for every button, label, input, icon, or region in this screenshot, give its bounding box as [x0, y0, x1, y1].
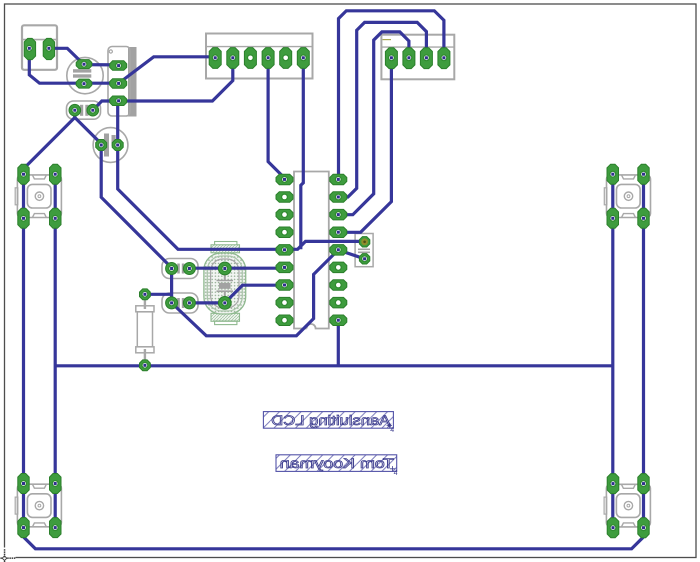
- wire D1 pad1 to Q1 pad1: [75, 110, 101, 145]
- capacitor C2 outline: [162, 293, 198, 313]
- IC1 left pin pad row8: [276, 297, 293, 308]
- capacitor C1 outline: [162, 259, 198, 279]
- switch S1 pad1: [18, 164, 29, 184]
- IC1 right pin pad row7: [330, 280, 347, 290]
- IC1 right pin pad row6: [330, 262, 347, 273]
- resistor R1 pad2: [140, 360, 151, 371]
- svg-text:Aansluiting LCD: Aansluiting LCD: [271, 413, 390, 428]
- resistor R1 pad1: [140, 289, 151, 300]
- svg-text:4: 4: [394, 470, 398, 477]
- regulator IC2 pad1: [110, 61, 127, 71]
- svg-text:4: 4: [390, 427, 394, 434]
- wire SV2 pad4 arc to IC1 pin1: [339, 11, 444, 180]
- capacitor C2 pad1: [166, 297, 178, 309]
- jumper JP1 pad1 (via): [359, 237, 369, 247]
- voltage regulator IC2 outline: [128, 47, 137, 117]
- resistor R1 outline: [144, 296, 146, 309]
- header SV2 pad1: [385, 48, 397, 69]
- capacitor C2 pad2: [183, 297, 195, 309]
- wire S1 pad2 to S3 pad2 column: [54, 174, 57, 527]
- transistor Q1 pad2: [112, 140, 123, 151]
- jumper JP1 pad2: [359, 254, 369, 264]
- switch S2 outline: [607, 175, 651, 218]
- wire mid horizontal R1 pad2 bus: [55, 364, 613, 367]
- IC1 left pin pad row6: [276, 262, 293, 273]
- switch S4 pad1: [607, 474, 619, 494]
- IC1 left pin pad row9: [276, 315, 293, 326]
- switch S3 pad4: [50, 518, 62, 538]
- wire SV2 pad1 to IC1 pin4: [338, 58, 391, 233]
- wire R1 pad1 to C1-C2 net: [145, 293, 172, 296]
- capacitor C3 minus pad: [76, 79, 92, 88]
- transistor Q1 pad1: [96, 140, 107, 151]
- wire Q2 pad2 to IC1 pin12: [225, 285, 285, 303]
- header SV1 pad3: [244, 48, 256, 69]
- text label Aansluiting LCD: [263, 412, 393, 429]
- IC IC1 outline: [294, 172, 329, 329]
- IC1 left pin pad row5: [276, 245, 293, 256]
- IC1 left pin pad row1: [276, 174, 293, 185]
- header SV2 outline: [381, 35, 454, 80]
- IC1 left pin pad row7: [276, 280, 293, 290]
- diode D1 pad1: [69, 104, 81, 116]
- wire SV2 pad2 arc to IC1 pin3: [338, 32, 409, 215]
- wire IC2 pad2 to SV1 pad1: [119, 57, 216, 84]
- wire X1 pad1 to C3 minus to IC2 pad2 (GND feed): [29, 48, 118, 83]
- IC1 right pin pad row8: [330, 297, 347, 308]
- header SV1 pad2: [227, 48, 239, 69]
- jumper JP1 outline: [355, 234, 373, 267]
- IC1 right pin pad row9: [330, 315, 347, 326]
- switch S1 pad4: [50, 208, 62, 228]
- wire Q1 pad1 to C1 pad1: [101, 145, 171, 268]
- crystal Q2 pad1: [218, 262, 231, 275]
- header SV2 pad4: [438, 48, 450, 69]
- header SV1 pad1: [209, 48, 221, 69]
- wire D1 pad2 via IC2 pad3 to SV1 pad2: [93, 58, 233, 110]
- switch S4 outline: [606, 484, 650, 527]
- text label Tom Kooyman: [276, 455, 397, 472]
- wire D1 pad1 to S1 pad1: [24, 110, 75, 174]
- capacitor C1 pad2: [183, 263, 195, 275]
- switch S2 pad1: [607, 164, 619, 184]
- regulator IC2 pad2: [110, 79, 127, 89]
- wire S2 pad1 to S4 pad1 column: [611, 174, 614, 528]
- IC1 right pin pad row2: [330, 192, 347, 202]
- IC1 right pin pad row5: [330, 245, 347, 256]
- terminal block X1 outline: [22, 25, 57, 70]
- wire SV2 pad3 arc to IC1 pin2: [338, 22, 426, 197]
- wire IC2 pad3 through Q1 pad2 to JP1 pad1: [118, 101, 365, 250]
- IC1 left pin pad row4: [276, 227, 293, 238]
- wire C2 pad2 to Q2 pad2: [189, 301, 224, 304]
- svg-text:Tom Kooyman: Tom Kooyman: [280, 456, 394, 471]
- switch S1 outline: [17, 175, 61, 218]
- switch S3 pad3: [18, 518, 29, 538]
- IC1 right pin pad row1: [330, 174, 347, 185]
- regulator IC2 pad3: [110, 96, 127, 106]
- wire C1 pad1 to C2 pad1: [170, 269, 173, 303]
- IC1 left pin pad row2: [276, 192, 293, 202]
- wire branch to IC1 pin10: [337, 320, 340, 366]
- switch S2 pad4: [638, 208, 649, 228]
- switch S1 pad3: [18, 208, 29, 228]
- wire IC1 pin5 to JP1 pad2: [339, 250, 365, 259]
- header SV1 pad4: [262, 48, 274, 69]
- terminal X1 pad1: [24, 38, 35, 59]
- header SV2 pad2: [403, 48, 415, 69]
- switch S4 pad2: [638, 474, 649, 494]
- wire X1 pad2 to C3 plus: [49, 48, 119, 65]
- header SV1 pad5: [280, 48, 292, 69]
- wire IC1 pin5 to C2 pad1: [172, 251, 338, 336]
- transistor Q1 outline: [93, 128, 128, 163]
- switch S3 pad1: [18, 474, 29, 494]
- IC1 right pin pad row3: [330, 209, 347, 220]
- switch S2 pad3: [607, 208, 619, 228]
- capacitor C3 outline: [67, 57, 103, 93]
- switch S1 pad2: [50, 164, 62, 184]
- diode D1 outline: [67, 101, 101, 119]
- header SV1 pad6: [297, 48, 309, 69]
- capacitor C1 pad1: [166, 263, 178, 275]
- wire C1 pad2 via Q2 pad1 to IC1 pin13: [189, 267, 284, 270]
- IC1 left pin pad row3: [276, 209, 293, 220]
- crystal Q2 outline: [215, 242, 237, 246]
- switch S4 pad3: [607, 518, 619, 538]
- crystal Q2 pad2: [218, 297, 231, 310]
- capacitor C3 plus pad: [76, 60, 92, 69]
- switch S2 pad2: [638, 164, 649, 184]
- header SV1 outline: [206, 34, 313, 79]
- switch S3 outline: [17, 484, 61, 527]
- IC1 right pin pad row4: [330, 227, 347, 238]
- terminal X1 pad2: [43, 38, 54, 59]
- origin marker: [3, 548, 6, 562]
- switch S4 pad4: [638, 518, 649, 538]
- wire SV1 pad6 to node under IC1: [301, 58, 304, 250]
- wire SV1 pad4 to IC1 pin18: [268, 58, 284, 180]
- diode D1 pad2: [87, 104, 99, 116]
- switch S3 pad2: [50, 474, 62, 494]
- wire ground loop S1-S3-bottom-S4-S2: [24, 174, 644, 549]
- header SV2 pad3: [420, 48, 432, 69]
